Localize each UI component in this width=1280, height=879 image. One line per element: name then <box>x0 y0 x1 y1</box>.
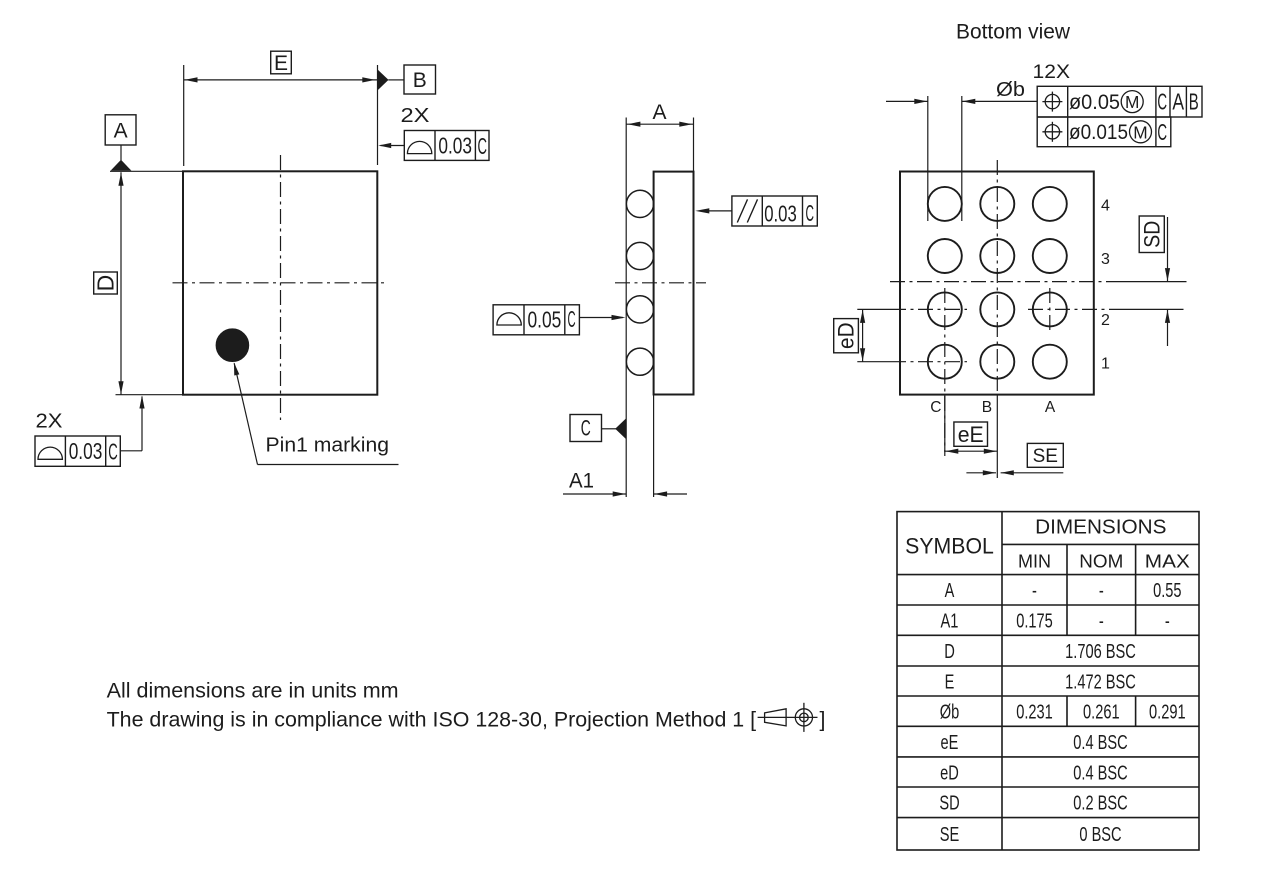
svg-text:SE: SE <box>940 823 960 846</box>
svg-text:0.175: 0.175 <box>1016 610 1053 633</box>
svg-text:1: 1 <box>1101 356 1110 373</box>
svg-text:0.03: 0.03 <box>438 133 472 159</box>
svg-text:ø0.015: ø0.015 <box>1069 121 1128 144</box>
svg-text:0.55: 0.55 <box>1153 579 1181 602</box>
svg-text:]: ] <box>820 708 826 732</box>
svg-text:E: E <box>274 52 288 75</box>
svg-text:0.4 BSC: 0.4 BSC <box>1073 761 1128 784</box>
svg-text:NOM: NOM <box>1079 551 1123 571</box>
svg-text:4: 4 <box>1101 197 1110 214</box>
svg-text:A: A <box>1172 89 1184 115</box>
svg-text:0.231: 0.231 <box>1016 701 1053 724</box>
svg-text:DIMENSIONS: DIMENSIONS <box>1035 516 1166 539</box>
svg-text:Pin1 marking: Pin1 marking <box>266 434 390 457</box>
svg-text:SD: SD <box>939 792 959 815</box>
svg-text:0.4 BSC: 0.4 BSC <box>1073 731 1128 754</box>
svg-text:12X: 12X <box>1033 62 1071 83</box>
svg-text:M: M <box>1133 122 1147 142</box>
svg-text:1.706 BSC: 1.706 BSC <box>1065 640 1136 663</box>
svg-text:0 BSC: 0 BSC <box>1079 823 1121 846</box>
svg-text:A: A <box>114 119 128 142</box>
svg-text:0.261: 0.261 <box>1083 701 1120 724</box>
svg-text:The drawing is in compliance w: The drawing is in compliance with ISO 12… <box>107 708 757 732</box>
svg-text:-: - <box>1099 579 1104 602</box>
svg-text:Bottom view: Bottom view <box>956 21 1071 44</box>
svg-text:eD: eD <box>940 761 959 784</box>
svg-text:2X: 2X <box>401 104 430 127</box>
svg-text:All dimensions are in units mm: All dimensions are in units mm <box>107 679 399 703</box>
svg-text:SD: SD <box>1139 221 1164 248</box>
svg-text:MAX: MAX <box>1145 551 1190 571</box>
svg-text:M: M <box>1125 92 1139 112</box>
svg-text:3: 3 <box>1101 251 1110 268</box>
svg-text:B: B <box>413 69 427 92</box>
svg-text:eD: eD <box>834 322 859 349</box>
svg-text:C: C <box>568 306 576 332</box>
svg-text:C: C <box>930 399 941 416</box>
svg-text:0.03: 0.03 <box>764 200 797 226</box>
svg-text:0.05: 0.05 <box>528 307 562 333</box>
svg-text:C: C <box>477 133 487 159</box>
svg-text:Øb: Øb <box>940 701 960 724</box>
svg-text:Øb: Øb <box>996 79 1025 101</box>
svg-text:D: D <box>93 275 119 292</box>
svg-text:0.2 BSC: 0.2 BSC <box>1073 792 1128 815</box>
svg-text:D: D <box>944 640 955 663</box>
svg-text:C: C <box>1157 89 1167 115</box>
svg-text:C: C <box>1157 119 1167 145</box>
svg-text:A: A <box>652 101 666 124</box>
svg-text:B: B <box>982 399 992 416</box>
svg-text:2: 2 <box>1101 312 1110 329</box>
svg-text:MIN: MIN <box>1018 551 1051 571</box>
svg-text:ø0.05: ø0.05 <box>1069 91 1120 114</box>
svg-text:0.03: 0.03 <box>69 438 103 464</box>
svg-text:C: C <box>805 200 814 226</box>
svg-text:A1: A1 <box>941 610 959 633</box>
svg-text:B: B <box>1189 89 1199 115</box>
svg-text:E: E <box>945 670 955 693</box>
svg-text:-: - <box>1099 610 1104 633</box>
svg-text:SE: SE <box>1033 446 1058 467</box>
svg-text:1.472 BSC: 1.472 BSC <box>1065 670 1136 693</box>
svg-text:C: C <box>108 439 118 465</box>
svg-text:A: A <box>1045 399 1056 416</box>
svg-text:A1: A1 <box>569 470 594 493</box>
svg-text:-: - <box>1032 579 1037 602</box>
svg-text:A: A <box>945 579 955 602</box>
svg-text:2X: 2X <box>36 410 63 433</box>
svg-text:0.291: 0.291 <box>1149 701 1186 724</box>
svg-text:-: - <box>1165 610 1170 633</box>
svg-text:SYMBOL: SYMBOL <box>905 534 994 559</box>
svg-text:eE: eE <box>958 422 984 447</box>
svg-text:C: C <box>581 416 591 441</box>
svg-text:eE: eE <box>941 731 959 754</box>
